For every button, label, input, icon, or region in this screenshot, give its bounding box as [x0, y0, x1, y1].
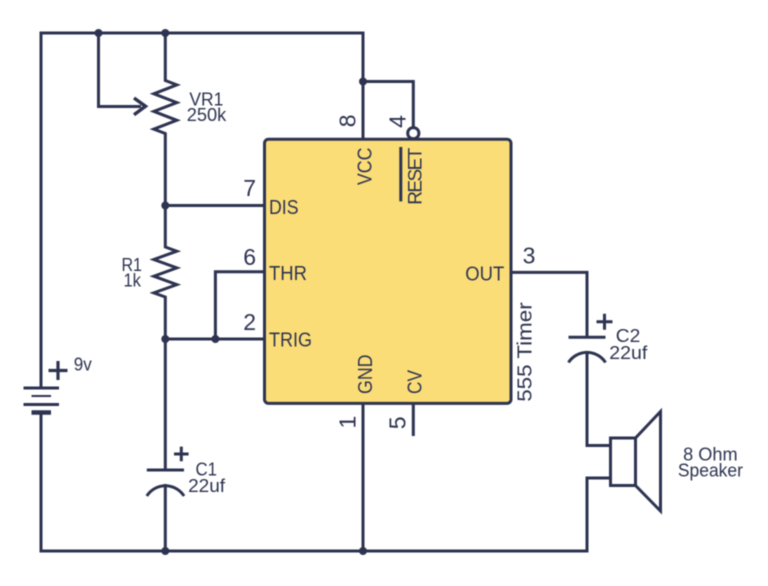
svg-text:1k: 1k	[123, 271, 141, 291]
svg-text:2: 2	[243, 309, 256, 335]
svg-text:OUT: OUT	[465, 264, 504, 286]
svg-text:250k: 250k	[187, 105, 227, 125]
svg-text:1: 1	[335, 416, 361, 429]
svg-text:RESET: RESET	[405, 147, 426, 204]
svg-text:555 Timer: 555 Timer	[515, 302, 537, 402]
svg-text:3: 3	[523, 243, 536, 269]
svg-text:7: 7	[243, 175, 256, 201]
svg-text:6: 6	[243, 244, 256, 270]
svg-text:TRIG: TRIG	[269, 330, 312, 352]
svg-text:5: 5	[385, 417, 411, 430]
svg-text:Speaker: Speaker	[678, 460, 743, 480]
svg-text:9v: 9v	[74, 354, 92, 374]
svg-text:8: 8	[335, 115, 361, 128]
svg-text:CV: CV	[404, 369, 426, 394]
svg-text:DIS: DIS	[269, 197, 299, 219]
svg-text:4: 4	[384, 115, 410, 128]
svg-text:GND: GND	[355, 355, 377, 395]
svg-text:22uf: 22uf	[609, 343, 648, 363]
svg-text:VCC: VCC	[355, 148, 377, 186]
svg-text:22uf: 22uf	[188, 476, 226, 496]
svg-text:THR: THR	[269, 263, 307, 285]
